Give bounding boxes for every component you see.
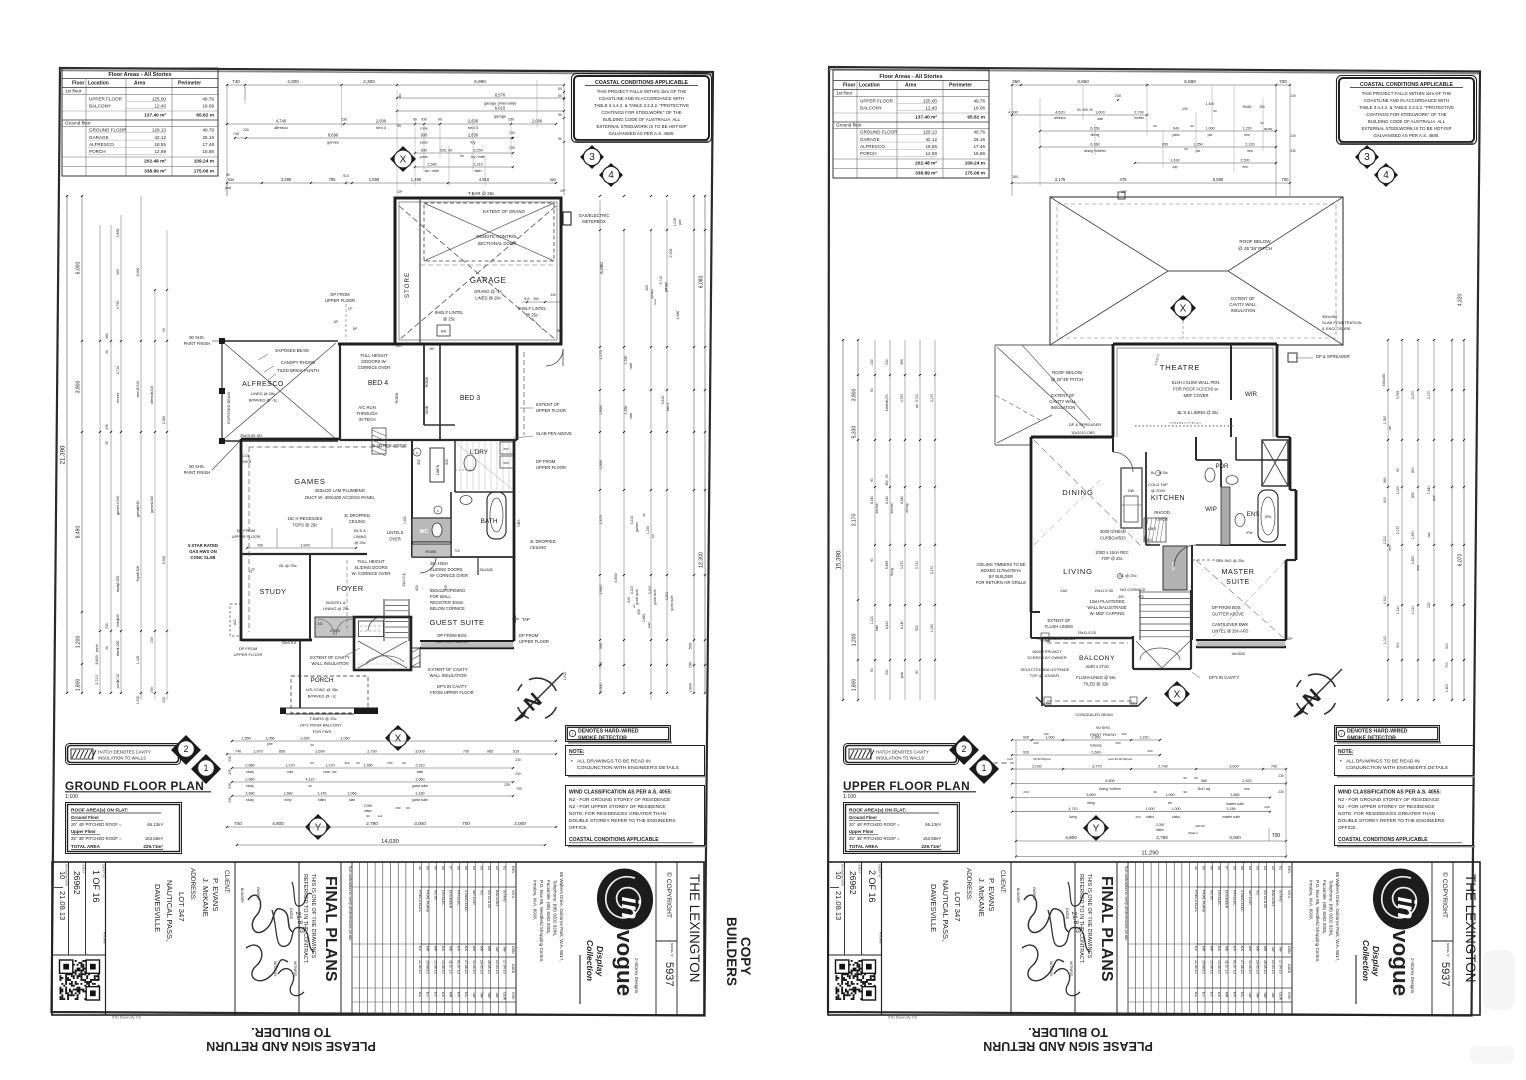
svg-text:16.07.13: 16.07.13 xyxy=(449,960,453,974)
wind classification box right page xyxy=(1335,786,1476,847)
svg-text:450x450: 450x450 xyxy=(1322,314,1338,319)
svg-text:990: 990 xyxy=(533,297,539,301)
svg-text:24.04.13: 24.04.13 xyxy=(1271,960,1275,974)
svg-text:PLEASE SIGN AND RETURN: PLEASE SIGN AND RETURN xyxy=(983,1039,1153,1053)
svg-text:1,050: 1,050 xyxy=(340,737,349,741)
svg-text:HP: HP xyxy=(1146,543,1152,547)
svg-text:4,210: 4,210 xyxy=(630,516,634,525)
X diamond bottom left page xyxy=(385,725,411,751)
svg-text:1,210: 1,210 xyxy=(870,616,874,625)
svg-text:ens: ens xyxy=(1242,165,1248,169)
svg-text:SELECTED BALUSTRADE: SELECTED BALUSTRADE xyxy=(1021,667,1070,672)
svg-text:ADDRESS:: ADDRESS: xyxy=(189,868,196,901)
alfresco posts and outline xyxy=(219,338,338,444)
svg-text:4,540: 4,540 xyxy=(900,496,904,505)
svg-text:27.06.13: 27.06.13 xyxy=(1240,960,1244,974)
svg-text:2,520: 2,520 xyxy=(1242,779,1251,783)
svg-text:3,170: 3,170 xyxy=(930,566,934,575)
svg-text:02: 02 xyxy=(1271,866,1275,870)
svg-text:390: 390 xyxy=(1118,595,1124,599)
svg-text:4,110: 4,110 xyxy=(306,778,315,782)
svg-text:A/C: A/C xyxy=(233,619,237,625)
svg-text:ADDRESS:: ADDRESS: xyxy=(965,868,972,901)
svg-text:FIN ELEC: FIN ELEC xyxy=(1217,890,1221,906)
svg-text:90: 90 xyxy=(558,113,562,117)
svg-text:3,295: 3,295 xyxy=(281,177,292,182)
svg-text:DAWESVILLE: DAWESVILLE xyxy=(153,884,162,932)
svg-text:700: 700 xyxy=(516,787,522,791)
svg-text:90: 90 xyxy=(1153,124,1157,128)
svg-text:GRANO @ -1c: GRANO @ -1c xyxy=(474,289,502,294)
svg-text:balc: balc xyxy=(875,625,879,632)
svg-text:porch: porch xyxy=(95,644,99,653)
svg-text:2,090: 2,090 xyxy=(1156,823,1165,827)
svg-text:25c HIGH: 25c HIGH xyxy=(430,561,448,566)
ground floor outer walls xyxy=(241,344,517,648)
left dimension column left page xyxy=(60,195,169,704)
svg-text:MH: MH xyxy=(430,347,436,351)
svg-text:TILED @ 32b: TILED @ 32b xyxy=(1084,682,1110,687)
svg-text:DP FROM BOX: DP FROM BOX xyxy=(1212,605,1241,610)
svg-text:2,855: 2,855 xyxy=(116,229,120,238)
svg-text:@ 25c: @ 25c xyxy=(354,540,365,545)
svg-text:10x3210 OBS: 10x3210 OBS xyxy=(1071,431,1095,435)
svg-text:DW: DW xyxy=(1128,489,1135,493)
svg-text:@ 2000: @ 2000 xyxy=(1151,488,1166,493)
svg-text:recess: recess xyxy=(1134,116,1144,120)
svg-text:WALL INSULATION: WALL INSULATION xyxy=(311,661,348,666)
svg-text:230: 230 xyxy=(1278,790,1284,794)
svg-text:6,080: 6,080 xyxy=(599,262,604,274)
svg-text:BOXED 1170x670mm: BOXED 1170x670mm xyxy=(981,568,1022,573)
svg-text:90: 90 xyxy=(308,784,312,788)
svg-text:DP FROM: DP FROM xyxy=(239,646,257,651)
svg-text:@ 25°38' PITCH: @ 25°38' PITCH xyxy=(1238,246,1272,251)
detail markers 2 and 1 left page xyxy=(171,735,201,765)
svg-text:230: 230 xyxy=(509,131,515,135)
top dimension cluster right page xyxy=(1008,79,1296,196)
svg-text:405: 405 xyxy=(116,269,120,275)
svg-text:90: 90 xyxy=(1260,121,1264,125)
svg-text:2,680: 2,680 xyxy=(245,792,254,796)
svg-text:DATED: DATED xyxy=(1065,908,1069,920)
svg-text:12.06.13: 12.06.13 xyxy=(1248,960,1252,974)
svg-text:5 STAR RATED: 5 STAR RATED xyxy=(188,543,218,548)
front door arcs xyxy=(368,617,382,631)
QR code xyxy=(836,960,876,1000)
hall tiled floor lines xyxy=(454,442,456,490)
compass north left page xyxy=(515,673,563,721)
svg-text:05: 05 xyxy=(1240,866,1244,870)
svg-text:160: 160 xyxy=(105,333,109,339)
svg-text:bed 4: bed 4 xyxy=(136,389,140,398)
robe gray strip xyxy=(412,544,451,557)
svg-text:10: 10 xyxy=(1194,866,1198,870)
svg-text:CANOPY RHOOD: CANOPY RHOOD xyxy=(281,360,315,365)
svg-text:3,175: 3,175 xyxy=(1055,177,1066,182)
svg-text:1,230: 1,230 xyxy=(646,526,650,534)
svg-text:1: 1 xyxy=(981,763,986,773)
svg-text:1,890: 1,890 xyxy=(599,405,603,415)
svg-text:1,370: 1,370 xyxy=(599,515,603,525)
svg-text:90: 90 xyxy=(994,761,998,765)
svg-text:OVER: OVER xyxy=(389,537,401,542)
svg-text:BATH: BATH xyxy=(480,518,497,525)
bed/ens fixtures small xyxy=(1235,514,1245,527)
svg-text:TO BUILDER.: TO BUILDER. xyxy=(251,1025,331,1039)
svg-text:lin: lin xyxy=(460,154,464,158)
svg-text:living: living xyxy=(890,568,894,576)
invogue cell address xyxy=(1291,862,1293,1015)
svg-text:NAUTICAL PASS,: NAUTICAL PASS, xyxy=(941,880,950,941)
svg-text:KA: KA xyxy=(464,992,468,997)
svg-text:kitchen: kitchen xyxy=(890,503,894,514)
svg-text:MR: MR xyxy=(480,946,484,952)
svg-text:DP & SPREADER: DP & SPREADER xyxy=(1316,354,1350,359)
svg-text:4,650: 4,650 xyxy=(614,573,618,583)
svg-text:705: 705 xyxy=(329,177,337,182)
svg-text:GAMES: GAMES xyxy=(294,477,325,486)
svg-text:Telephone: (08) 9202 9200,: Telephone: (08) 9202 9200, xyxy=(552,880,557,936)
svg-text:TAF: TAF xyxy=(472,992,476,998)
svg-text:INSULATION: INSULATION xyxy=(1051,405,1076,410)
floor areas table left page xyxy=(62,68,218,176)
svg-text:SLAB PENETRATION: SLAB PENETRATION xyxy=(1322,320,1362,325)
svg-text:3,000: 3,000 xyxy=(415,750,425,754)
svg-text:TAF: TAF xyxy=(480,992,484,998)
svg-text:3,000: 3,000 xyxy=(1229,765,1239,769)
svg-text:1,350: 1,350 xyxy=(624,406,628,415)
svg-text:1,000: 1,000 xyxy=(1205,127,1214,131)
svg-text:1,000: 1,000 xyxy=(1165,793,1174,797)
svg-text:2,790: 2,790 xyxy=(1158,765,1168,769)
final plans cell xyxy=(340,862,342,1015)
svg-text:J. McKANE: J. McKANE xyxy=(201,878,210,917)
svg-text:MR: MR xyxy=(1209,946,1213,952)
svg-text:SLAB PEN ABOVE: SLAB PEN ABOVE xyxy=(536,431,572,436)
svg-text:MR: MR xyxy=(426,946,430,952)
sub-contractors strip xyxy=(351,862,353,1015)
svg-text:TAF: TAF xyxy=(1248,992,1252,998)
svg-text:2,300: 2,300 xyxy=(136,566,140,575)
svg-text:26962: 26962 xyxy=(72,871,82,895)
Y diamond bottom left page xyxy=(305,814,331,840)
dining diagonal ceiling lines xyxy=(1034,440,1140,545)
svg-text:DP & SPREADER: DP & SPREADER xyxy=(1069,422,1101,427)
svg-text:90 SHS.: 90 SHS. xyxy=(189,464,205,469)
svg-text:13.08.13: 13.08.13 xyxy=(1217,960,1221,974)
svg-text:FOR WALL: FOR WALL xyxy=(430,594,451,599)
svg-text:PLEASE SIGN AND RETURN: PLEASE SIGN AND RETURN xyxy=(206,1039,376,1053)
top dimension cluster left page xyxy=(225,79,565,196)
svg-text:SHEET N°: SHEET N° xyxy=(102,864,106,878)
svg-text:1,800: 1,800 xyxy=(76,679,82,692)
upper floor interior walls xyxy=(1031,437,1290,640)
svg-text:50: 50 xyxy=(558,87,562,91)
svg-text:700: 700 xyxy=(463,750,469,754)
svg-text:COPY: COPY xyxy=(738,937,753,975)
svg-text:1,870: 1,870 xyxy=(1411,531,1415,540)
svg-text:robe: robe xyxy=(629,363,633,370)
svg-text:90: 90 xyxy=(1396,468,1400,472)
svg-text:EV: EV xyxy=(1202,992,1206,997)
svg-text:games: games xyxy=(116,505,120,516)
svg-text:90: 90 xyxy=(915,670,919,674)
svg-text:1,800: 1,800 xyxy=(689,683,693,693)
svg-text:720: 720 xyxy=(454,549,460,553)
svg-text:SLIDING DOORS: SLIDING DOORS xyxy=(430,567,463,572)
svg-text:FOR ROOF ACCESS w-: FOR ROOF ACCESS w- xyxy=(1173,387,1219,392)
svg-text:games: games xyxy=(150,503,154,513)
balcony outline xyxy=(1036,631,1147,706)
svg-text:SUITE: SUITE xyxy=(1226,577,1250,586)
svg-text:VO #: VO # xyxy=(511,890,515,898)
svg-text:4,910: 4,910 xyxy=(479,177,490,182)
cavity hatch square right of entry xyxy=(411,648,420,667)
svg-text:03: 03 xyxy=(487,866,491,870)
svg-text:DATE: DATE xyxy=(1287,964,1291,974)
svg-text:CEILING @ 25c: CEILING @ 25c xyxy=(1216,558,1245,563)
garage slab X pattern xyxy=(399,206,556,340)
svg-text:master suite: master suite xyxy=(1222,815,1240,819)
svg-text:07: 07 xyxy=(1225,866,1229,870)
top cluster vertical ties left page xyxy=(396,90,398,196)
svg-text:500: 500 xyxy=(387,761,392,765)
svg-text:450x450: 450x450 xyxy=(1382,374,1386,387)
svg-text:BL: BL xyxy=(1151,471,1155,475)
svg-text:garage: garage xyxy=(664,282,668,292)
svg-text:3,850: 3,850 xyxy=(1230,793,1239,797)
svg-text:PRECX ELEC: PRECX ELEC xyxy=(1194,890,1198,913)
svg-text:1,310: 1,310 xyxy=(1396,606,1400,615)
svg-text:MR: MR xyxy=(1202,946,1206,952)
svg-text:920: 920 xyxy=(915,625,919,631)
title block frame xyxy=(52,862,704,1015)
svg-text:640: 640 xyxy=(1173,127,1179,131)
svg-text:entry: entry xyxy=(284,798,292,802)
svg-text:KA: KA xyxy=(1194,992,1198,997)
svg-text:700: 700 xyxy=(1272,833,1281,839)
svg-text:65 Walters Drive, Osborne Park: 65 Walters Drive, Osborne Park, W.A. 601… xyxy=(559,872,564,962)
svg-text:09: 09 xyxy=(1209,866,1213,870)
svg-text:820: 820 xyxy=(415,585,419,591)
svg-text:DP: DP xyxy=(334,320,338,324)
svg-text:230: 230 xyxy=(150,637,154,643)
svg-text:25x0.5 A: 25x0.5 A xyxy=(402,573,406,587)
svg-text:1,145: 1,145 xyxy=(136,656,140,665)
svg-text:560: 560 xyxy=(550,178,556,182)
svg-text:14,030: 14,030 xyxy=(381,839,399,845)
svg-text:MASTER: MASTER xyxy=(1222,567,1255,576)
svg-text:THIS IS ONE OF THE DRAWINGS: THIS IS ONE OF THE DRAWINGS xyxy=(1086,874,1092,959)
svg-text:WIP: WIP xyxy=(1205,506,1217,513)
svg-text:study: study xyxy=(246,784,254,788)
copyright cell xyxy=(655,862,657,1015)
svg-text:1,350: 1,350 xyxy=(1193,143,1202,147)
svg-text:700: 700 xyxy=(1279,79,1287,84)
svg-text:P.O. Box 95, Westfield Shoppin: P.O. Box 95, Westfield Shopping Centre, xyxy=(539,880,544,963)
svg-text:CBS: CBS xyxy=(517,519,521,527)
svg-text:850: 850 xyxy=(279,750,285,754)
svg-text:pier: pier xyxy=(678,218,682,224)
svg-text:DP's IN CAVITY: DP's IN CAVITY xyxy=(437,684,467,689)
svg-text:UPPER FLOOR: UPPER FLOOR xyxy=(325,298,355,303)
svg-text:BUNTEL &: BUNTEL & xyxy=(326,600,346,605)
svg-text:U/S CONC @ 35c: U/S CONC @ 35c xyxy=(306,687,338,692)
svg-text:1,630: 1,630 xyxy=(1170,159,1179,163)
svg-text:09: 09 xyxy=(1202,866,1206,870)
svg-text:DP FROM: DP FROM xyxy=(519,633,539,638)
svg-text:10: 10 xyxy=(418,866,422,870)
svg-text:DP's IN CAVITY: DP's IN CAVITY xyxy=(1209,675,1239,680)
svg-text:1,690: 1,690 xyxy=(599,585,603,595)
svg-text:MR: MR xyxy=(1256,946,1260,952)
svg-text:1,350: 1,350 xyxy=(1383,416,1387,425)
X section diamond top left page xyxy=(390,146,416,172)
svg-text:fdy: fdy xyxy=(651,533,655,538)
svg-text:820: 820 xyxy=(417,459,421,465)
svg-text:UPPER FLOOR: UPPER FLOOR xyxy=(234,652,263,657)
svg-text:290: 290 xyxy=(1147,749,1152,753)
svg-text:FOR RETURN AIR GRILLE: FOR RETURN AIR GRILLE xyxy=(976,580,1027,585)
svg-text:CEILING TIMBERS TO BE: CEILING TIMBERS TO BE xyxy=(977,562,1026,567)
svg-text:THROUGH: THROUGH xyxy=(356,411,377,416)
svg-text:MR: MR xyxy=(1263,946,1267,952)
svg-text:A.PLANS: A.PLANS xyxy=(103,932,107,944)
svg-text:games: games xyxy=(635,522,639,532)
svg-text:230: 230 xyxy=(1278,774,1284,778)
svg-text:STORE: STORE xyxy=(404,272,411,298)
svg-text:740: 740 xyxy=(232,79,240,84)
svg-text:VO: VO xyxy=(1256,890,1260,895)
ens gray tile strip xyxy=(1221,487,1230,545)
svg-text:6,800: 6,800 xyxy=(1105,779,1114,783)
svg-text:3000 O/HEAD: 3000 O/HEAD xyxy=(1100,529,1126,534)
svg-text:VO 05: VO 05 xyxy=(433,890,437,900)
svg-text:15/08/13: 15/08/13 xyxy=(426,960,430,974)
svg-text:KA: KA xyxy=(456,946,460,951)
svg-text:1,200: 1,200 xyxy=(852,634,858,647)
svg-text:239: 239 xyxy=(504,783,510,787)
svg-text:pass: pass xyxy=(1173,133,1180,137)
svg-text:550: 550 xyxy=(228,178,234,182)
svg-text:DP FROM: DP FROM xyxy=(237,528,255,533)
svg-text:LOT 347: LOT 347 xyxy=(953,892,962,921)
svg-text:513: 513 xyxy=(343,174,349,178)
svg-text:FROM UPPER FLOOR: FROM UPPER FLOOR xyxy=(430,690,474,695)
svg-text:1,600: 1,600 xyxy=(599,684,603,693)
svg-text:90: 90 xyxy=(642,513,646,517)
compass north right page xyxy=(1294,669,1342,717)
svg-text:1,580: 1,580 xyxy=(427,163,437,167)
svg-text:DAWESVILLE: DAWESVILLE xyxy=(929,884,938,932)
svg-text:CLIENT:: CLIENT: xyxy=(223,870,230,894)
bottom dimension cluster right page xyxy=(994,732,1287,858)
svg-text:PDR: PDR xyxy=(1215,463,1229,470)
svg-text:452: 452 xyxy=(344,761,349,765)
svg-text:230: 230 xyxy=(341,118,347,122)
wind classification box left page xyxy=(566,786,707,847)
svg-text:90: 90 xyxy=(870,558,874,562)
svg-text:CLIENT:: CLIENT: xyxy=(999,870,1006,894)
svg-text:25x2638: 25x2638 xyxy=(479,568,492,572)
svg-text:TAF: TAF xyxy=(1263,992,1267,998)
svg-text:EV: EV xyxy=(1209,992,1213,997)
svg-text:KA: KA xyxy=(1194,946,1198,951)
svg-text:BL @ 25c: BL @ 25c xyxy=(279,563,296,568)
svg-text:theatre: theatre xyxy=(885,401,889,412)
svg-text:100D x 15cH REC: 100D x 15cH REC xyxy=(1095,550,1128,555)
svg-text:850: 850 xyxy=(1411,467,1415,473)
svg-text:130: 130 xyxy=(105,424,109,430)
svg-text:kitchen: kitchen xyxy=(875,503,879,514)
svg-text:630: 630 xyxy=(627,597,631,603)
svg-text:514H x 510W WALL PEN.: 514H x 510W WALL PEN. xyxy=(1172,380,1221,385)
ground floor annotations xyxy=(234,292,572,734)
svg-text:530, 90: 530, 90 xyxy=(440,149,453,153)
svg-text:bath: bath xyxy=(475,169,482,173)
svg-text:1:100: 1:100 xyxy=(843,794,856,800)
svg-text:2,630: 2,630 xyxy=(300,737,309,741)
svg-text:UBO: UBO xyxy=(1148,526,1157,531)
svg-text:Y: Y xyxy=(1093,823,1100,834)
theatre block walls xyxy=(1113,344,1277,437)
svg-text:PORCH: PORCH xyxy=(310,677,333,684)
svg-text:FLUSH-LINED @ 55c: FLUSH-LINED @ 55c xyxy=(1076,675,1116,680)
svg-text:CEW: CEW xyxy=(503,992,507,1001)
svg-text:MR: MR xyxy=(449,946,453,952)
svg-text:FOYER: FOYER xyxy=(336,584,363,593)
svg-text:26.05.13: 26.05.13 xyxy=(1263,960,1267,974)
svg-text:140: 140 xyxy=(317,622,323,626)
svg-text:UPPER FLOOR PLAN: UPPER FLOOR PLAN xyxy=(843,779,970,793)
svg-text:ens: ens xyxy=(1244,133,1250,137)
guest suite cavity hatch band xyxy=(421,642,513,647)
svg-text:SHEET N°: SHEET N° xyxy=(878,864,882,878)
svg-text:Y: Y xyxy=(315,822,322,833)
svg-text:5937: 5937 xyxy=(663,962,675,986)
ens spa xyxy=(1258,490,1278,542)
svg-text:ens: ens xyxy=(1388,545,1392,551)
svg-text:FLUSH LINING: FLUSH LINING xyxy=(1045,624,1073,629)
stairs upper xyxy=(1132,636,1134,669)
svg-text:X: X xyxy=(400,154,407,165)
svg-text:930: 930 xyxy=(421,133,429,138)
svg-text:EXPOSED BEAM: EXPOSED BEAM xyxy=(275,348,309,353)
svg-text:games: games xyxy=(136,507,140,518)
svg-text:230: 230 xyxy=(162,697,166,703)
svg-text:2: 2 xyxy=(961,744,966,754)
svg-text:BED 3: BED 3 xyxy=(460,395,480,402)
svg-text:700: 700 xyxy=(462,821,470,826)
svg-text:890: 890 xyxy=(1411,492,1415,498)
svg-text:3,810: 3,810 xyxy=(661,396,665,405)
note box right page xyxy=(1335,746,1476,777)
svg-text:dining / kitchen: dining / kitchen xyxy=(1099,787,1121,791)
svg-text:6,990: 6,990 xyxy=(474,79,486,84)
left dimension column right page xyxy=(836,339,937,701)
svg-text:2,520: 2,520 xyxy=(1240,159,1249,163)
A/C dashed box xyxy=(230,604,241,636)
note box left page xyxy=(566,746,707,777)
ground floor interior walls xyxy=(241,345,517,640)
svg-text:290: 290 xyxy=(1033,741,1038,745)
svg-text:90: 90 xyxy=(406,806,410,810)
svg-text:L'DRY: L'DRY xyxy=(470,449,489,456)
svg-text:in: in xyxy=(1392,896,1422,919)
svg-text:living: living xyxy=(1087,801,1095,805)
scan smudges bottom right xyxy=(1483,950,1515,1010)
